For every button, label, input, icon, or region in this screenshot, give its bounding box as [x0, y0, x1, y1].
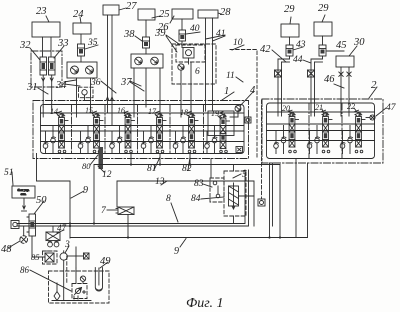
svg-text:6: 6 — [195, 67, 200, 77]
pressure valve in box 5 — [229, 186, 239, 206]
double supply line 8 lower — [17, 170, 249, 226]
dash-dot box around valves 32 33 — [31, 51, 62, 87]
valve section 21 spool — [323, 117, 329, 148]
long return line 9 bottom — [70, 163, 308, 238]
control block 30 — [336, 56, 354, 67]
tank internal drop lines — [63, 260, 65, 300]
control block 26 — [172, 9, 193, 19]
svg-text:45: 45 — [336, 40, 347, 51]
svg-text:14: 14 — [50, 107, 58, 116]
valve 85 — [45, 253, 54, 262]
dashed line 11 inner — [261, 100, 263, 199]
check valve diamond in tank — [54, 292, 60, 301]
pump unit arrows — [74, 291, 86, 300]
motor circle 4 — [235, 106, 241, 112]
svg-text:21: 21 — [315, 103, 323, 112]
valve section 19 port stubs — [206, 131, 208, 144]
svg-text:32: 32 — [19, 40, 31, 51]
svg-text:10: 10 — [233, 38, 243, 48]
svg-text:84: 84 — [191, 194, 201, 204]
manifold 2 section dividers — [308, 103, 310, 159]
filter 7 — [118, 207, 134, 215]
valve section 19 spool — [220, 118, 226, 149]
motor 36 circle left — [135, 57, 143, 65]
wire 47 up to supply — [52, 226, 54, 232]
control unit 51 box with text — [12, 186, 35, 198]
svg-text:47: 47 — [386, 103, 397, 113]
valve section 21 pilot ticks — [328, 119, 332, 121]
svg-text:8: 8 — [166, 194, 171, 204]
arrowheads on 27 wires — [106, 97, 113, 100]
svg-text:27: 27 — [126, 1, 137, 12]
valve section 15 pilot ticks — [99, 120, 103, 122]
small dashed box 34 with gauge — [79, 87, 94, 98]
valve section 21 check valves — [307, 144, 312, 149]
gauge circle in tank — [80, 276, 85, 281]
wire 25 down — [145, 20, 147, 37]
valve 45 — [319, 45, 326, 56]
svg-text:20: 20 — [282, 104, 290, 113]
control block 29 right — [314, 22, 332, 36]
valve section 20 port stubs — [275, 131, 277, 144]
valve section 14 port stubs — [45, 131, 47, 144]
wire 38 to motor box 36 — [145, 48, 147, 54]
valve section 18 port stubs — [175, 131, 177, 144]
svg-text:47: 47 — [57, 223, 67, 233]
wire 48 stub — [23, 226, 25, 236]
plug box with cross right of pump — [84, 253, 90, 259]
valve 40 — [179, 30, 186, 41]
svg-text:15: 15 — [85, 106, 93, 115]
double supply line 8 upper — [17, 170, 245, 224]
valve section 15 port stubs — [80, 131, 82, 144]
valve section 17 port stubs — [143, 131, 145, 144]
valve section 19 check valves — [205, 144, 210, 149]
motor circle right — [86, 66, 94, 74]
wire box5 top to line 12 — [233, 165, 235, 172]
valve section 22 spring — [355, 110, 359, 116]
wires 30 down with x marks 46 — [340, 67, 342, 100]
wire from filter 7 down — [127, 215, 129, 238]
svg-text:31: 31 — [26, 82, 38, 93]
svg-text:22: 22 — [347, 102, 355, 111]
svg-text:4: 4 — [250, 85, 256, 96]
manifold 2 rails — [267, 111, 375, 113]
wires motor box down — [76, 78, 78, 107]
wire 50 down to 85 — [32, 236, 45, 257]
wire 26 down — [181, 19, 183, 30]
control block 23 — [32, 22, 60, 37]
wire 35 to motor box — [80, 56, 82, 62]
wires box 36 down — [133, 68, 135, 107]
valve section 20 pilot ticks — [295, 119, 299, 121]
svg-text:11: 11 — [226, 71, 235, 81]
svg-text:17: 17 — [148, 107, 157, 116]
valve section 22 port stubs — [342, 131, 344, 144]
valve section 14 pilot ticks — [64, 120, 68, 122]
svg-text:48: 48 — [1, 244, 12, 255]
feeder stubs inside manifold — [42, 107, 44, 117]
manifold 2 solid housing — [267, 103, 375, 159]
svg-text:9: 9 — [174, 246, 179, 257]
tank bottom line — [52, 300, 91, 302]
valve section 16 port stubs — [111, 131, 113, 144]
wire box5 bottom to supply line — [233, 216, 235, 224]
svg-text:16: 16 — [117, 106, 125, 115]
wire 29L down — [289, 37, 291, 45]
svg-text:3: 3 — [64, 240, 70, 250]
svg-text:34: 34 — [55, 80, 67, 91]
manifold 2 dash-dot border — [262, 99, 383, 163]
control block 27 — [103, 5, 119, 15]
svg-text:50: 50 — [36, 195, 47, 206]
pipe line 12 — [94, 165, 280, 238]
wire from circle 4 down — [237, 112, 239, 118]
return drop right group a — [269, 163, 271, 238]
svg-text:86: 86 — [20, 265, 30, 275]
motor box under 24 — [67, 62, 97, 78]
wires unit 6 down — [181, 41, 183, 48]
valve section 17 spring — [156, 111, 160, 117]
dashed box 5 — [224, 171, 246, 216]
pump unit dashed box in tank — [72, 284, 87, 299]
dashed box around valve 85 — [43, 251, 58, 264]
valve section 18 check valves — [173, 144, 178, 149]
svg-text:49: 49 — [100, 256, 111, 267]
svg-text:18: 18 — [180, 108, 188, 117]
manifold 1 lower dark pipe 80 — [99, 147, 104, 169]
svg-text:46: 46 — [324, 74, 335, 85]
valve section 22 pilot ticks — [361, 119, 365, 121]
svg-text:43: 43 — [296, 40, 306, 50]
svg-text:81: 81 — [147, 164, 157, 174]
svg-text:29: 29 — [318, 3, 329, 14]
symbol 47 in manifold 2 — [370, 115, 375, 120]
valve 50 — [29, 214, 36, 236]
svg-text:5: 5 — [242, 169, 247, 180]
valve 32 — [40, 57, 47, 75]
arrows under valves 32 33 — [42, 75, 45, 81]
valve section 19 pilot ticks — [226, 120, 230, 122]
svg-text:9: 9 — [83, 185, 88, 196]
svg-text:29: 29 — [284, 4, 295, 15]
small square symbol lower right of 19 — [236, 147, 243, 153]
valve section 16 spring — [125, 111, 129, 117]
pipe line 13 — [117, 181, 254, 226]
control block 24 — [73, 23, 91, 34]
valve 43 — [286, 45, 293, 56]
svg-text:30: 30 — [353, 37, 365, 48]
valve section 21 spring — [322, 110, 326, 116]
svg-text:авт.: авт. — [20, 192, 26, 196]
svg-text:51: 51 — [4, 168, 14, 178]
dashed outer box around 36-6 group — [172, 44, 216, 84]
small square symbol right of 19 — [245, 117, 251, 123]
wire 29R down — [322, 36, 324, 45]
motor circle 6 — [178, 64, 184, 70]
svg-text:12: 12 — [102, 170, 112, 180]
valve section 20 spring — [289, 110, 293, 116]
svg-text:42: 42 — [260, 44, 271, 55]
svg-text:13: 13 — [155, 177, 165, 187]
dashed box around unit 6 — [176, 45, 205, 62]
valve 38 — [143, 37, 150, 48]
valve section 17 check valves — [141, 144, 146, 149]
valve section 17 pilot ticks — [162, 120, 166, 122]
valve section 19 housing box — [208, 111, 234, 136]
feeder 44 second wire — [314, 62, 316, 100]
wire pump 3 to plug box — [67, 255, 76, 257]
motor box 36 under 25 — [131, 54, 163, 68]
svg-text:80: 80 — [82, 161, 91, 171]
wire 45 bend to feeder 44 — [311, 56, 323, 100]
valve section 18 spring — [188, 111, 192, 117]
dashed box 10 outline — [230, 50, 257, 158]
wire 23 to valves 32/33 — [42, 37, 44, 57]
feeder wire 42 second — [281, 62, 283, 100]
wire 24 down — [80, 34, 82, 44]
wire 9 left drop from manifold — [37, 154, 71, 239]
manifold rails — [41, 112, 245, 114]
svg-text:1: 1 — [224, 86, 229, 97]
svg-text:40: 40 — [190, 24, 200, 34]
small dashed box 83-84 — [210, 178, 224, 202]
svg-text:83: 83 — [194, 179, 204, 189]
svg-text:38: 38 — [123, 29, 135, 40]
valve section 19 spring — [220, 112, 224, 118]
valve 33 — [49, 57, 56, 75]
svg-text:36: 36 — [90, 78, 101, 88]
wire box5 side — [239, 195, 255, 197]
valve section 16 pilot ticks — [131, 120, 135, 122]
valve section 16 spool — [125, 118, 131, 149]
inline symbol on feeder 44 — [308, 70, 315, 77]
manifold 2 feeder stubs — [277, 100, 279, 116]
inline symbol on feeder 42 — [275, 70, 282, 77]
box-with-circle inside unit 6 — [183, 48, 194, 59]
drain stub 83 — [210, 159, 212, 179]
svg-text:41: 41 — [216, 29, 226, 39]
wire plug to valve 50 — [19, 223, 29, 225]
junction dots — [69, 222, 71, 224]
svg-text:28: 28 — [220, 7, 231, 18]
pump circle 3 — [60, 253, 67, 260]
svg-text:39: 39 — [154, 28, 166, 39]
tiny circles in box 83-84 — [213, 181, 217, 185]
svg-text:37: 37 — [120, 77, 132, 88]
wire vertical 76 to tank — [75, 247, 77, 268]
svg-text:35: 35 — [87, 38, 98, 48]
svg-text:23: 23 — [36, 6, 47, 17]
valve section 18 spool — [189, 118, 195, 149]
valve unit 47 bottom — [46, 232, 60, 241]
manifold 1 dash-dot border — [33, 101, 249, 159]
svg-text:85: 85 — [31, 252, 40, 262]
arrow from 51 down — [23, 198, 26, 209]
valve section 14 spring — [58, 111, 62, 117]
square symbol with circle under manifold2 — [258, 199, 265, 206]
return drop right group a2 — [272, 163, 274, 226]
svg-text:2: 2 — [371, 79, 377, 91]
control block 28 — [198, 10, 218, 18]
motor circle left — [71, 66, 79, 74]
wires 27 down long pair — [107, 15, 109, 107]
valve section 22 check valves — [340, 144, 345, 149]
control block 29 left — [281, 24, 299, 37]
wire 43 bend to feeder 42 — [278, 56, 290, 100]
svg-text:Фиг. 1: Фиг. 1 — [186, 296, 224, 311]
svg-text:44: 44 — [293, 55, 303, 65]
svg-text:25: 25 — [159, 9, 170, 20]
section divider dash-dot lines — [71, 105, 73, 154]
svg-text:19: 19 — [211, 109, 219, 118]
leader lines for labels — [46, 16, 49, 22]
valve section 20 check valves — [274, 144, 279, 149]
return drop right group b — [295, 159, 297, 238]
valve section 22 spool — [356, 117, 362, 148]
manifold 1 solid housing — [41, 105, 245, 154]
plug symbol left end of supply line — [11, 221, 19, 229]
wires 32/33 down to manifold — [42, 81, 44, 107]
svg-text:24: 24 — [73, 9, 84, 20]
suction pipe cylinder in tank — [95, 268, 102, 291]
valve section 21 port stubs — [309, 131, 311, 144]
valve section 15 check valves — [78, 144, 83, 149]
valve section 16 check valves — [110, 144, 115, 149]
svg-text:33: 33 — [57, 38, 69, 49]
valve 35 — [78, 44, 85, 56]
valve section 18 pilot ticks — [194, 120, 198, 122]
valve section 17 spool — [157, 118, 163, 149]
valve section 20 spool — [289, 117, 295, 148]
valve section 14 spool — [59, 118, 65, 149]
motor 36 circle right — [151, 57, 159, 65]
component 48 dashed circle — [20, 236, 28, 244]
pump circle in tank unit — [75, 288, 80, 293]
valve section 15 spring — [93, 111, 97, 117]
drain stubs 81 82 from manifold — [159, 154, 161, 165]
tank dashed box 49 — [49, 271, 110, 303]
wires 28 down long pair 41 — [205, 18, 207, 111]
valve section 14 check valves — [43, 144, 48, 149]
valve section 15 spool — [94, 118, 100, 149]
svg-text:82: 82 — [182, 164, 192, 174]
control block 25 — [138, 9, 155, 20]
